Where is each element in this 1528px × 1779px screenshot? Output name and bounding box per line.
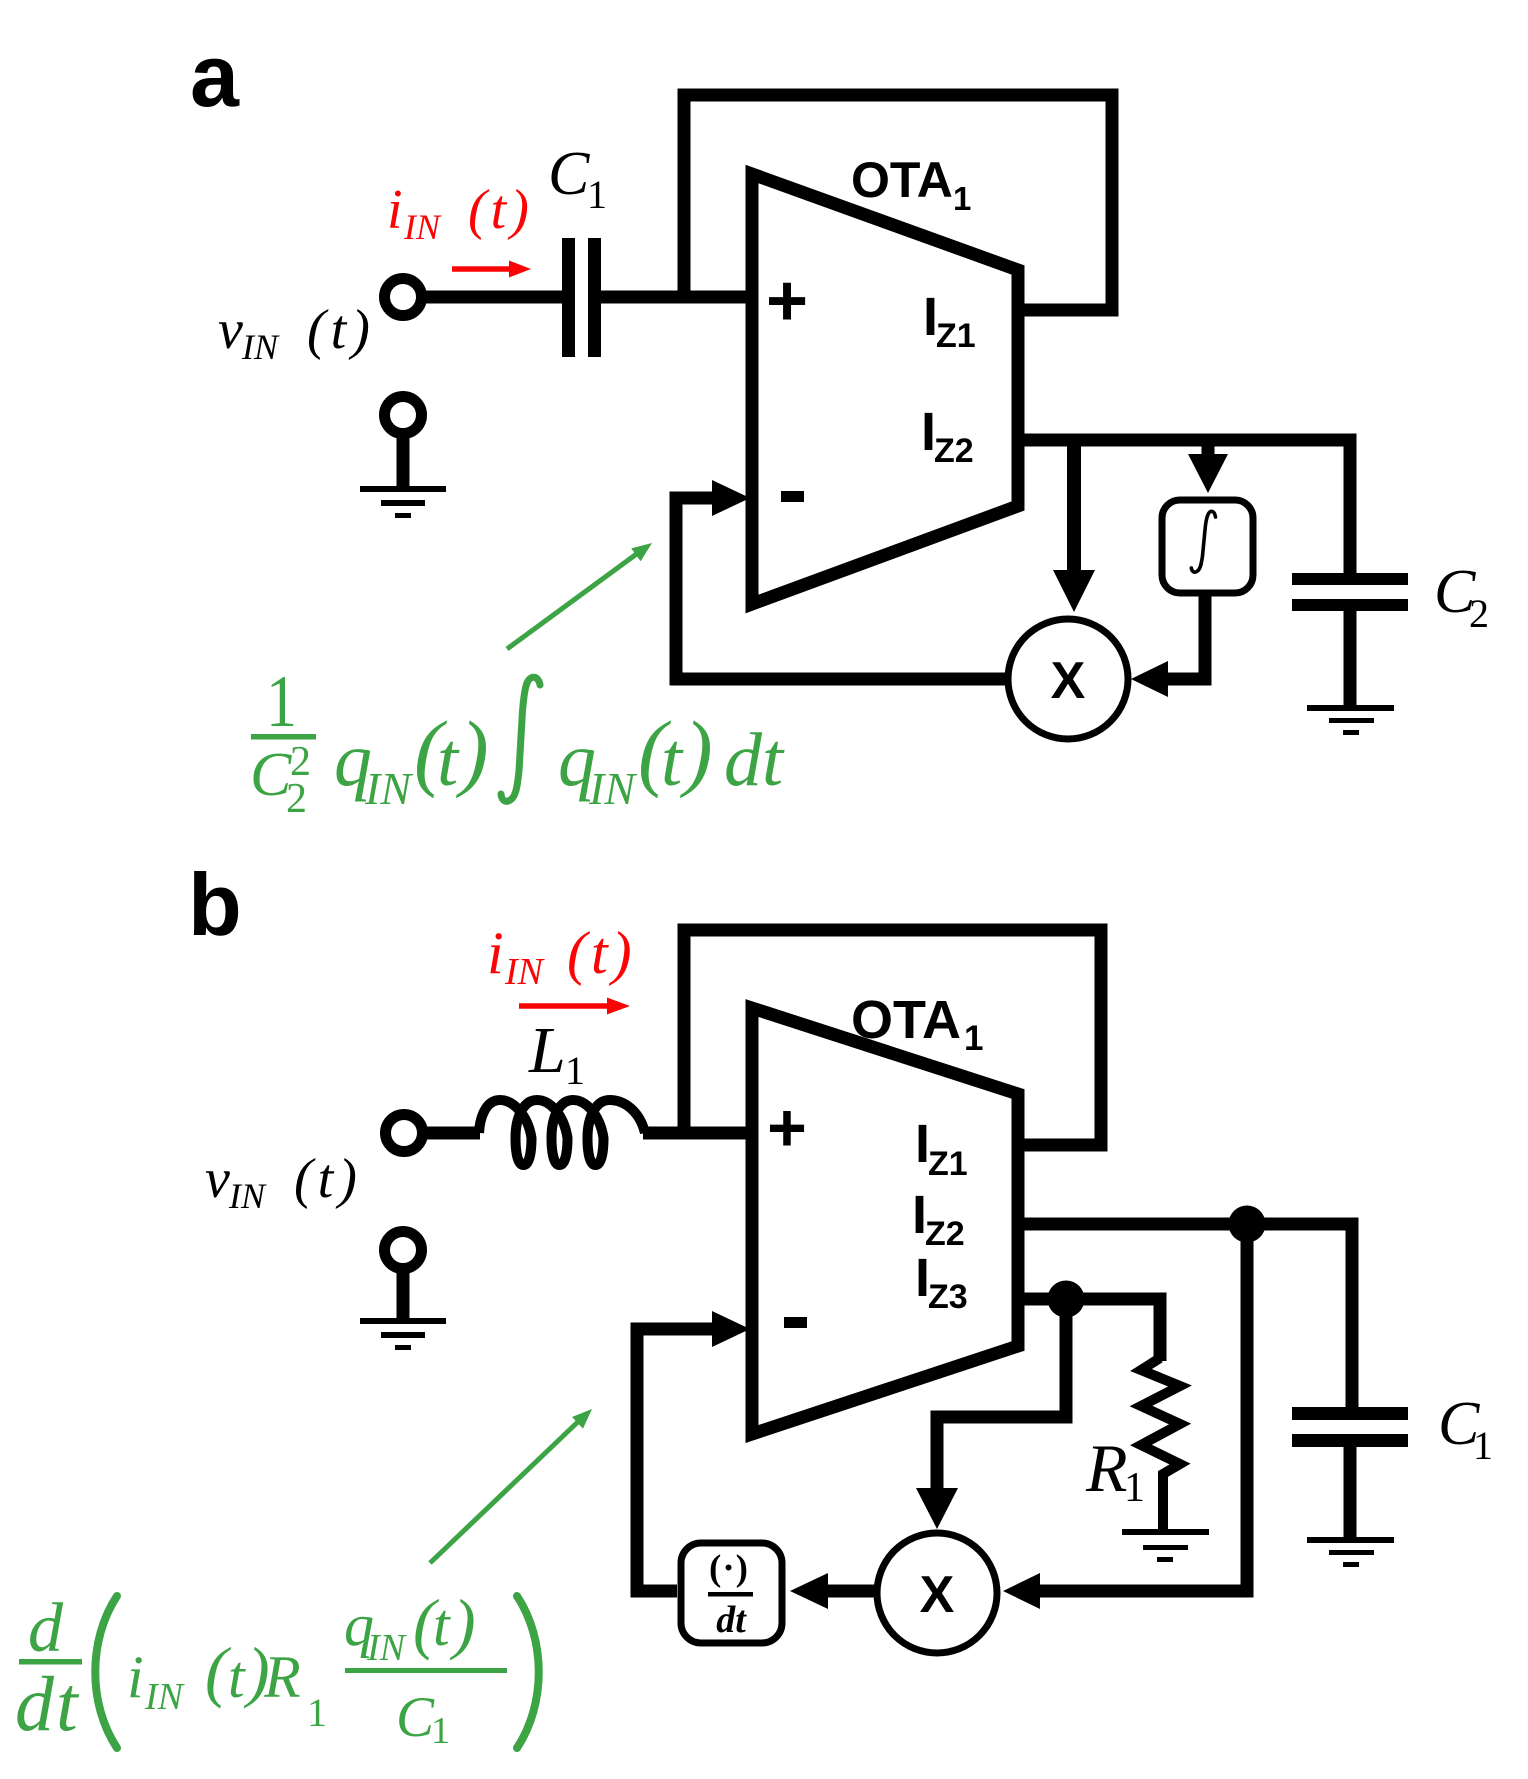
pin IZ2 (panel a) xyxy=(921,402,974,470)
svg-text:(t): (t) xyxy=(294,1148,362,1210)
svg-text:IN: IN xyxy=(504,951,546,993)
svg-text:X: X xyxy=(1051,652,1086,710)
svg-text:d: d xyxy=(28,1590,64,1667)
capacitor C1 (panel b) xyxy=(1292,1407,1408,1447)
svg-text:dt: dt xyxy=(716,1599,747,1641)
wire terminal to ground (panel a) xyxy=(397,433,410,487)
svg-text:IN: IN xyxy=(144,1676,186,1718)
svg-text:1: 1 xyxy=(1124,1465,1145,1511)
label L1 (panel b) xyxy=(528,1014,585,1093)
ground (R1) xyxy=(1122,1529,1209,1562)
svg-text:IN: IN xyxy=(366,1627,408,1669)
svg-text:i: i xyxy=(127,1644,144,1710)
arrow into integrator (panel a) xyxy=(1188,440,1228,493)
integrator block (panel a) xyxy=(1162,500,1253,593)
green pointer arrow (panel b) xyxy=(430,1409,592,1563)
svg-text:R: R xyxy=(263,1644,301,1710)
inductor L1 xyxy=(479,1100,645,1165)
ground (C2) xyxy=(1307,705,1394,735)
svg-text:b: b xyxy=(188,855,242,954)
label vIN(t) (panel b) xyxy=(205,1148,362,1216)
label C1 (panel b) xyxy=(1438,1390,1493,1468)
svg-text:v: v xyxy=(205,1148,230,1210)
svg-text:t: t xyxy=(661,718,684,802)
green pointer arrow (panel a) xyxy=(507,543,652,649)
label C2 (panel a) xyxy=(1434,558,1489,636)
wire IZ3 output to R1 (panel b) xyxy=(1018,1299,1160,1361)
wire IZ2 output to C2 (panel a) xyxy=(1018,440,1350,573)
svg-text:1: 1 xyxy=(953,180,971,217)
pin IZ1 (panel b) xyxy=(915,1114,968,1183)
op-amp OTA1 (panel a) xyxy=(752,174,1018,604)
node vIN terminal (panel a) xyxy=(385,279,422,316)
wire multiplier to - input (panel a) xyxy=(676,480,1008,679)
svg-text:dt: dt xyxy=(724,718,785,802)
wire input terminal to C1 xyxy=(421,291,562,304)
ground terminal circle (panel a) xyxy=(385,397,422,434)
svg-text:+: + xyxy=(766,261,808,341)
node vIN terminal (panel b) xyxy=(386,1115,423,1152)
label OTA1 (panel b) xyxy=(851,990,983,1058)
wire inductor to OTA + input (panel b) xyxy=(643,1127,752,1140)
red label iIN(t) (panel b) xyxy=(487,920,636,993)
svg-text:1: 1 xyxy=(565,1048,585,1093)
svg-text:Z2: Z2 xyxy=(934,432,974,470)
svg-text:): ) xyxy=(679,703,713,799)
svg-text:i: i xyxy=(487,920,504,986)
ground (panel b input) xyxy=(360,1318,446,1350)
wire IZ3 node down to multiplier with arrow (panel b) xyxy=(916,1299,1066,1529)
svg-text:Z1: Z1 xyxy=(936,317,976,355)
label R1 xyxy=(1085,1430,1145,1511)
arrow multiplier to d/dt block (panel b) xyxy=(790,1573,877,1609)
resistor R1 xyxy=(1141,1358,1180,1530)
green annotation formula (panel b) xyxy=(15,1585,539,1752)
pin IZ2 (panel b) xyxy=(912,1185,965,1253)
svg-text:v: v xyxy=(218,299,243,361)
label C1 (panel a) xyxy=(548,140,607,217)
op-amp OTA1 (panel b) xyxy=(752,1008,1018,1434)
junction node on IZ2 wire (panel b) xyxy=(1229,1206,1266,1243)
svg-text:(t): (t) xyxy=(567,920,636,986)
svg-text:X: X xyxy=(920,1566,955,1624)
label vIN(t) (panel a) xyxy=(218,299,375,367)
wire IZ2 output to C1 (panel b) xyxy=(1018,1224,1352,1407)
svg-text:1: 1 xyxy=(307,1690,327,1735)
svg-text:(·): (·) xyxy=(709,1548,749,1589)
differentiator block d/dt (panel b) xyxy=(681,1543,782,1643)
pin - (panel a) xyxy=(781,491,804,502)
multiplier X (panel a) xyxy=(1008,619,1128,739)
svg-text:t: t xyxy=(228,1644,246,1710)
ground terminal circle (panel b) xyxy=(385,1232,422,1269)
svg-text:2: 2 xyxy=(1469,591,1489,636)
svg-text:+: + xyxy=(767,1090,807,1166)
wire IZ1 feedback loop (panel a) xyxy=(684,95,1112,310)
svg-text:dt: dt xyxy=(15,1660,80,1747)
wire d/dt block to - input (panel b) xyxy=(637,1311,750,1591)
wire IZ2 node down to multiplier right input (panel b) xyxy=(1003,1224,1247,1609)
svg-text:IN: IN xyxy=(403,207,442,247)
svg-text:t: t xyxy=(433,1592,451,1658)
svg-text:t: t xyxy=(437,718,460,802)
red label iIN(t) (panel a) xyxy=(387,179,533,247)
svg-text:IN: IN xyxy=(364,763,413,814)
svg-text:1: 1 xyxy=(431,1710,450,1752)
svg-text:C: C xyxy=(548,140,590,208)
svg-text:Z1: Z1 xyxy=(928,1145,968,1183)
svg-text:): ) xyxy=(449,1585,476,1661)
junction node on IZ3 wire (panel b) xyxy=(1048,1281,1085,1318)
svg-text:OTA: OTA xyxy=(851,152,953,208)
svg-text:(t): (t) xyxy=(307,299,375,361)
wire IZ1 feedback loop (panel b) xyxy=(684,930,1101,1145)
ground (panel a input) xyxy=(360,486,446,518)
svg-text:IN: IN xyxy=(228,1176,267,1216)
wire C1 to ground (panel b) xyxy=(1344,1447,1357,1539)
green annotation formula (panel a) xyxy=(250,661,785,822)
svg-text:1: 1 xyxy=(266,661,297,743)
svg-text:Z2: Z2 xyxy=(925,1215,965,1253)
pin - (panel b) xyxy=(784,1317,807,1328)
wire C2 to ground xyxy=(1344,611,1357,707)
svg-text:1: 1 xyxy=(964,1019,983,1058)
svg-text:C: C xyxy=(396,1686,435,1749)
red current arrow iIN (panel b) xyxy=(519,998,630,1015)
svg-text:OTA: OTA xyxy=(851,990,961,1050)
wire integrator to multiplier (panel a) xyxy=(1131,593,1205,697)
multiplier X (panel b) xyxy=(877,1533,997,1653)
wire terminal to inductor (panel b) xyxy=(422,1127,480,1140)
svg-text:(t): (t) xyxy=(468,179,533,241)
svg-text:1: 1 xyxy=(587,172,607,217)
wire IZ2 down to multiplier with arrow (panel a) xyxy=(1053,440,1095,612)
svg-text:IN: IN xyxy=(588,763,637,814)
wire C1 to OTA + input xyxy=(601,291,752,304)
pin IZ3 (panel b) xyxy=(915,1248,968,1316)
ground (C1 panel b) xyxy=(1307,1537,1394,1567)
wire terminal to ground (panel b) xyxy=(397,1268,410,1320)
svg-text:L: L xyxy=(528,1014,566,1087)
capacitor C2 (panel a) xyxy=(1292,573,1408,611)
svg-text:Z3: Z3 xyxy=(928,1278,968,1316)
svg-text:a: a xyxy=(190,26,240,125)
svg-text:i: i xyxy=(387,179,403,241)
red current arrow iIN (panel a) xyxy=(452,261,531,278)
capacitor C1 (panel a) xyxy=(562,238,601,357)
svg-text:1: 1 xyxy=(1473,1423,1493,1468)
svg-text:IN: IN xyxy=(241,327,280,367)
svg-text:R: R xyxy=(1085,1430,1128,1506)
svg-text:): ) xyxy=(455,703,489,799)
label OTA1 (panel a) xyxy=(851,152,971,217)
pin IZ1 (panel a) xyxy=(923,287,976,355)
svg-text:2: 2 xyxy=(286,776,307,822)
